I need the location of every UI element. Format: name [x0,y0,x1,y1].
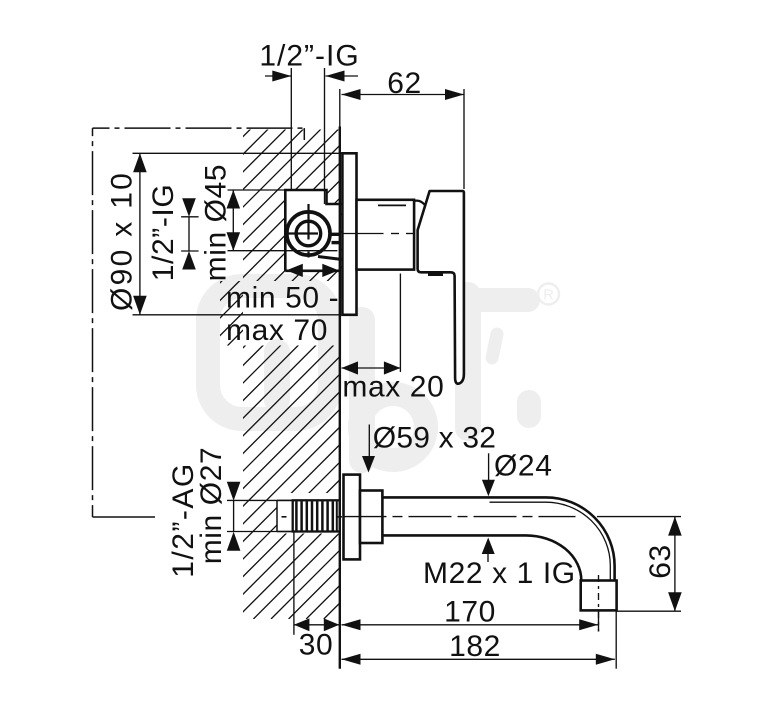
svg-text:Ø24: Ø24 [494,450,553,483]
svg-text:min 50 -: min 50 - [226,281,339,314]
svg-text:min Ø27: min Ø27 [195,447,228,565]
svg-text:1/2”-IG: 1/2”-IG [147,184,180,282]
svg-text:min Ø45: min Ø45 [200,164,233,282]
svg-text:M22 x 1 IG: M22 x 1 IG [423,557,576,590]
svg-text:182: 182 [449,630,501,663]
svg-text:30: 30 [299,629,334,662]
svg-text:Ø59 x 32: Ø59 x 32 [373,422,496,455]
svg-text:max 70: max 70 [226,314,328,347]
svg-text:63: 63 [644,544,677,579]
svg-text:max 20: max 20 [342,371,444,404]
svg-text:R: R [543,287,554,304]
svg-text:1/2”-IG: 1/2”-IG [259,40,359,73]
svg-text:170: 170 [444,596,496,629]
svg-text:Ø90 x 10: Ø90 x 10 [105,171,138,311]
